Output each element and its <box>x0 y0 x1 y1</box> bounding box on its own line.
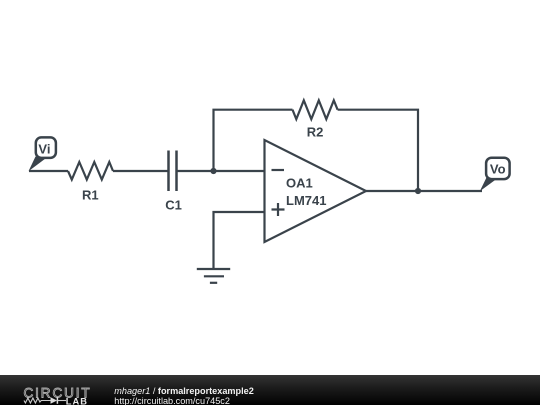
ground bar 3 <box>210 282 217 284</box>
wire node A up to feedback via top-left corner <box>214 110 293 171</box>
ground bar 2 <box>204 275 224 277</box>
svg-text:Vo: Vo <box>490 162 506 177</box>
op-amp plus sign <box>272 203 285 216</box>
ground bar 1 <box>197 268 230 270</box>
wire op-amp output <box>366 190 482 192</box>
wire C1 to op-amp inverting input <box>177 170 265 172</box>
op-amp minus sign <box>272 169 285 171</box>
svg-text:Vi: Vi <box>38 141 50 156</box>
resistor R1 <box>68 162 113 180</box>
node A junction dot <box>210 168 216 174</box>
wire R1 to C1 <box>113 170 168 172</box>
capacitor C1 plate right <box>175 151 178 192</box>
flag Vi <box>29 137 56 171</box>
svg-text:R1: R1 <box>82 187 99 202</box>
capacitor C1 plate left <box>167 151 170 192</box>
footer bar <box>0 375 540 406</box>
resistor R2 <box>293 100 338 119</box>
wire Vi to R1 <box>29 170 68 172</box>
svg-text:C1: C1 <box>165 197 182 212</box>
svg-text:R2: R2 <box>307 124 324 139</box>
logo diode triangle <box>51 397 58 404</box>
node B output junction dot <box>415 188 421 194</box>
svg-text:OA1: OA1 <box>286 176 313 191</box>
logo diode cathode bar <box>56 397 58 404</box>
svg-text:LM741: LM741 <box>286 193 326 208</box>
svg-text:LAB: LAB <box>66 396 88 405</box>
svg-text:mhager1 / formalreportexample2: mhager1 / formalreportexample2 <box>114 385 253 395</box>
wire non-inverting input <box>214 212 265 269</box>
svg-text:http://circuitlab.com/cu745c2: http://circuitlab.com/cu745c2 <box>114 395 230 405</box>
op-amp OA1 triangle <box>265 140 367 242</box>
logo wire to LAB <box>57 399 66 401</box>
wire R2 to node B via top-right corner <box>338 110 418 191</box>
flag Vo <box>480 158 510 192</box>
logo resistor squiggle <box>24 398 51 403</box>
